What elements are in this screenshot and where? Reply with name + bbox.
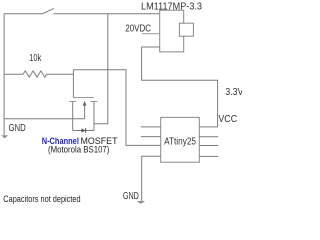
wire resistor to gate node [47, 73, 74, 75]
wire left rail [3, 14, 5, 135]
IC U2 pin 5 stub right [199, 155, 218, 157]
svg-text:LM1117MP-3.3: LM1117MP-3.3 [141, 2, 202, 13]
switch S1 lever [42, 8, 54, 13]
ground symbol bottom [137, 201, 145, 204]
svg-text:20VDC: 20VDC [125, 24, 151, 35]
wire regulator output to VCC pin [142, 47, 218, 127]
transistor Q1 right stub [93, 102, 95, 131]
IC U2 pin 6 stub right [199, 145, 218, 147]
svg-text:3.3V: 3.3V [225, 87, 242, 98]
svg-text:VCC: VCC [218, 114, 237, 125]
IC U2 pin 4 gnd wire [142, 156, 161, 201]
svg-text:(Motorola BS107): (Motorola BS107) [48, 143, 109, 154]
regulator U1 body [160, 10, 184, 52]
diode D1 body triangle [82, 128, 86, 133]
transistor Q1 right stub cap [91, 101, 98, 103]
transistor Q1 bulk stem [84, 104, 86, 119]
ground symbol left [1, 135, 8, 138]
IC U2 ATtiny25 body [161, 117, 200, 162]
wire body diode rail [73, 130, 94, 132]
IC U2 pin 2 stub left [141, 136, 161, 138]
wire gate drop [72, 70, 74, 98]
transistor Q1 bulk arrow head [83, 101, 87, 106]
svg-text:10k: 10k [29, 53, 42, 64]
svg-text:Capacitors not depicted: Capacitors not depicted [3, 194, 80, 204]
svg-text:GND: GND [9, 123, 26, 134]
wire top left to switch [4, 13, 42, 15]
wire switch to regulator [53, 13, 159, 15]
regulator U1 tab [179, 23, 193, 36]
resistor R1 10k [23, 71, 47, 77]
wire drain vertical [94, 14, 108, 124]
wire 20VDC stub [142, 33, 160, 35]
IC U2 pin 7 stub right [199, 136, 218, 138]
wire gate node to ATtiny pin [73, 70, 160, 146]
IC U2 pin 1 stub left [141, 126, 161, 128]
transistor Q1 gate plate [73, 97, 94, 99]
svg-text:ATtiny25: ATtiny25 [164, 136, 196, 147]
wire bulk to gnd rail [4, 118, 85, 120]
svg-text:GND: GND [123, 191, 139, 202]
transistor Q1 left stub cap [69, 101, 76, 103]
wire rail to resistor [4, 73, 23, 75]
diode D1 body bar [85, 128, 87, 133]
transistor Q1 left stub [72, 102, 74, 131]
